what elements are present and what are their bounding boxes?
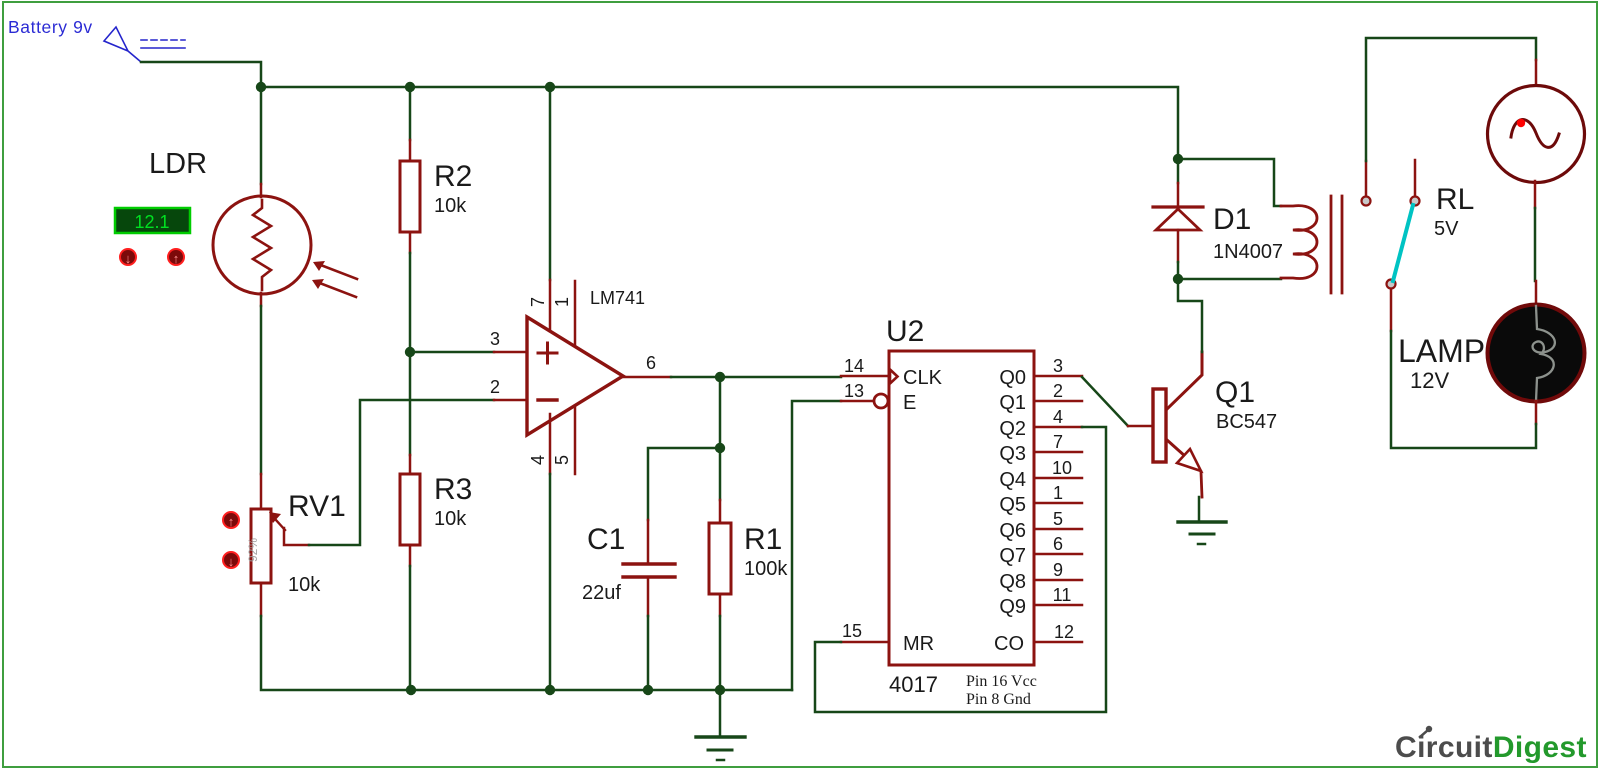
wire source to lamp: [1534, 208, 1537, 281]
svg-text:CLK: CLK: [903, 367, 943, 389]
svg-text:92%: 92%: [246, 538, 260, 562]
svg-text:6: 6: [1053, 534, 1063, 554]
svg-text:5: 5: [1053, 509, 1063, 529]
node junction rail pin4: [545, 685, 555, 695]
wire pin4 to bottom rail: [549, 474, 552, 690]
svg-text:9: 9: [1053, 560, 1063, 580]
svg-text:4: 4: [1053, 407, 1063, 427]
node junction D1 top: [1173, 154, 1183, 164]
wire lamp to switch pole: [1391, 331, 1536, 448]
svg-text:2: 2: [490, 377, 500, 397]
svg-text:MR: MR: [903, 633, 934, 655]
wire lamp circuit top: [1366, 38, 1536, 161]
svg-text:12V: 12V: [1410, 368, 1449, 393]
wire RV1 to bottom rail: [261, 616, 411, 690]
svg-text:5: 5: [552, 455, 572, 465]
svg-text:4: 4: [528, 455, 548, 465]
wire D1 bottom lead: [1177, 262, 1180, 279]
svg-text:14: 14: [844, 356, 864, 376]
battery B1 (Battery 9v label and symbol): [8, 17, 185, 62]
svg-text:15: 15: [842, 621, 862, 641]
svg-text:U2: U2: [886, 315, 924, 348]
svg-text:7: 7: [1053, 432, 1063, 452]
svg-text:C1: C1: [587, 523, 625, 556]
relay switch common terminal: [1362, 161, 1371, 206]
svg-text:11: 11: [1053, 585, 1072, 605]
svg-text:10k: 10k: [434, 195, 467, 217]
svg-text:7: 7: [528, 297, 548, 307]
wire op-amp output to CLK: [671, 376, 841, 379]
svg-text:LM741: LM741: [590, 288, 645, 308]
wire R1 to bottom rail: [719, 616, 722, 690]
svg-text:4017: 4017: [889, 672, 938, 697]
capacitor C1: [623, 520, 675, 616]
potentiometer RV1: [246, 474, 309, 616]
wire collector from relay node: [1178, 279, 1202, 352]
wire node to R1: [719, 448, 722, 500]
wire LDR to RV1: [260, 306, 263, 474]
svg-text:Pin 16 Vcc: Pin 16 Vcc: [966, 673, 1037, 690]
svg-text:2: 2: [1053, 381, 1063, 401]
wire C1 to bottom rail: [647, 616, 650, 690]
svg-text:Q9: Q9: [999, 596, 1026, 618]
U2 pin stub Q9 pin 11: [1034, 585, 1082, 605]
svg-text:LAMP: LAMP: [1398, 333, 1485, 369]
wire pin2 from RV1 wiper: [309, 400, 494, 545]
node junction R2/R3/pin3: [405, 347, 415, 357]
node junction op-amp pin7 top: [545, 82, 555, 92]
wire rail to R2: [409, 87, 412, 140]
wire E pin13 to ground rail: [792, 401, 841, 690]
svg-text:Q7: Q7: [999, 545, 1026, 567]
U2 pin stub Q7 pin 6: [1034, 534, 1082, 554]
relay switch pole terminal: [1387, 280, 1396, 332]
svg-text:R2: R2: [434, 160, 472, 193]
svg-text:3: 3: [1053, 356, 1063, 376]
wire Q0 to Q1 base: [1082, 377, 1128, 426]
svg-text:Q1: Q1: [1215, 376, 1255, 409]
RV1 down button: [223, 552, 239, 569]
svg-text:Q2: Q2: [999, 418, 1026, 440]
wire R2 to R3: [409, 253, 412, 455]
wire emitter to ground: [1198, 497, 1201, 522]
svg-text:↑: ↑: [173, 251, 180, 266]
IC U2 4017 body: [841, 351, 1034, 665]
svg-text:R3: R3: [434, 473, 472, 506]
svg-text:22uf: 22uf: [582, 582, 621, 604]
node junction battery/LDR: [256, 82, 266, 92]
node junction rail R1/ground: [715, 685, 725, 695]
U2 pin stub Q0 pin 3: [1034, 356, 1082, 376]
svg-text:Q0: Q0: [999, 367, 1026, 389]
svg-text:CO: CO: [994, 633, 1024, 655]
svg-text:5V: 5V: [1434, 218, 1459, 240]
transistor Q1 BC547: [1128, 352, 1202, 497]
wire Q2 to MR reset loop: [815, 427, 1106, 712]
LDR display 12.1: [115, 208, 190, 233]
wire pin7 from rail: [549, 87, 552, 280]
wire rail to LDR: [260, 87, 263, 184]
wire relay coil bottom: [1178, 278, 1281, 281]
LDR up button: [168, 249, 184, 266]
U2 pin stub CO pin 12: [1034, 622, 1082, 642]
svg-text:10k: 10k: [434, 508, 467, 530]
svg-text:D1: D1: [1213, 203, 1251, 236]
RV1 up button: [223, 512, 239, 529]
wire relay coil top: [1178, 159, 1281, 206]
svg-text:Q6: Q6: [999, 520, 1026, 542]
resistor R2: [400, 140, 420, 253]
svg-text:13: 13: [844, 381, 864, 401]
svg-text:12: 12: [1054, 622, 1074, 642]
wire top V+ rail: [261, 87, 1178, 159]
U2 pin stub Q1 pin 2: [1034, 381, 1082, 401]
svg-text:E: E: [903, 392, 916, 414]
svg-text:↓: ↓: [125, 251, 132, 266]
svg-text:12.1: 12.1: [134, 212, 169, 232]
LDR down button: [120, 249, 136, 266]
svg-text:Q3: Q3: [999, 443, 1026, 465]
svg-text:↑: ↑: [228, 514, 235, 529]
wire output node down: [719, 377, 722, 448]
resistor R3: [400, 455, 420, 566]
svg-text:Battery 9v: Battery 9v: [8, 17, 93, 37]
op-amp U1 LM741: [494, 280, 671, 474]
svg-text:Q5: Q5: [999, 494, 1026, 516]
U2 pin stub Q2 pin 4: [1034, 407, 1082, 427]
svg-text:1: 1: [552, 297, 572, 307]
diode D1 1N4007: [1153, 183, 1203, 262]
wire pin3: [410, 351, 494, 354]
wire battery to top rail: [141, 62, 261, 87]
CircuitDigest logo: [1395, 726, 1587, 764]
ground symbol main: [696, 690, 745, 760]
wire D1 top lead: [1177, 159, 1180, 183]
svg-text:100k: 100k: [744, 558, 788, 580]
wire bottom ground rail: [411, 689, 792, 692]
svg-text:Pin 8 Gnd: Pin 8 Gnd: [966, 691, 1031, 708]
node junction R2 top: [405, 82, 415, 92]
svg-text:6: 6: [646, 353, 656, 373]
U2 pin stub Q4 pin 10: [1034, 458, 1082, 478]
AC source V1: [1488, 60, 1585, 208]
U2 pin stub Q6 pin 5: [1034, 509, 1082, 529]
node junction output: [715, 372, 725, 382]
U2 pin stub Q8 pin 9: [1034, 560, 1082, 580]
svg-text:RL: RL: [1436, 183, 1474, 216]
svg-text:Q4: Q4: [999, 469, 1026, 491]
lamp L1: [1488, 281, 1585, 424]
relay RL coil: [1281, 196, 1342, 293]
svg-text:LDR: LDR: [149, 148, 207, 180]
svg-text:↓: ↓: [228, 554, 235, 569]
svg-text:Q8: Q8: [999, 571, 1026, 593]
svg-text:10k: 10k: [288, 574, 321, 596]
node junction rail C1: [643, 685, 653, 695]
svg-text:1: 1: [1053, 483, 1063, 503]
relay switch NO terminal: [1411, 160, 1420, 206]
node junction C1/R1: [715, 443, 725, 453]
ground symbol at Q1 emitter: [1178, 522, 1226, 544]
node junction D1 bottom: [1173, 274, 1183, 284]
svg-text:R1: R1: [744, 523, 782, 556]
wire R3 to bottom rail: [409, 566, 412, 690]
svg-text:CircuitDigest: CircuitDigest: [1395, 731, 1587, 764]
LDR photoresistor: [213, 184, 357, 306]
svg-text:RV1: RV1: [288, 490, 346, 523]
svg-text:1N4007: 1N4007: [1213, 241, 1283, 263]
wire node to C1: [648, 448, 720, 520]
resistor R1: [709, 500, 731, 616]
svg-text:Q1: Q1: [999, 392, 1026, 414]
node junction rail R3: [406, 685, 416, 695]
svg-text:3: 3: [490, 329, 500, 349]
svg-text:10: 10: [1052, 458, 1072, 478]
relay switch blade: [1393, 205, 1413, 281]
U2 pin stub Q5 pin 1: [1034, 483, 1082, 503]
svg-text:BC547: BC547: [1216, 411, 1277, 433]
U2 pin stub Q3 pin 7: [1034, 432, 1082, 452]
